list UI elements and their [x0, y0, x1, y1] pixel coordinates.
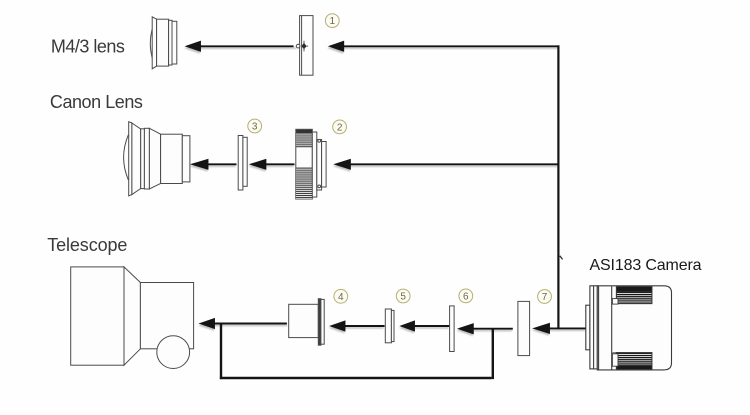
adapter 2 knurled ring	[296, 129, 326, 199]
Canon lens drawing	[124, 122, 190, 196]
arrow camera to adapter 7	[535, 324, 586, 333]
arrow to M4/3 lens	[188, 42, 294, 51]
svg-text:1: 1	[330, 16, 336, 27]
svg-text:5: 5	[400, 292, 406, 303]
M4/3 lens drawing	[150, 17, 177, 69]
wire feedback bottom segment	[220, 377, 492, 379]
wire feedback down segment	[492, 329, 494, 379]
arrow shadows	[187, 44, 586, 335]
adapter 3 plates	[238, 136, 247, 191]
arrow to Canon lens	[193, 160, 236, 169]
circled number 6	[459, 289, 473, 303]
svg-text:6: 6	[463, 292, 469, 303]
arrow to adapter 2	[336, 160, 559, 169]
svg-text:7: 7	[542, 292, 548, 303]
arrow to adapter 1	[331, 42, 560, 51]
wire feedback up segment	[220, 324, 222, 380]
small tick mark near camera	[560, 256, 563, 260]
adapter 4 nosepiece	[289, 299, 324, 346]
circled number 4	[334, 289, 348, 303]
ASI183 camera drawing	[586, 286, 672, 370]
circled number 7	[538, 290, 552, 304]
arrow adapter 2 to adapter 3	[252, 160, 295, 169]
arrow adapter 6 to adapter 5	[402, 322, 449, 331]
arrow adapter 5 to adapter 4	[332, 322, 385, 331]
svg-text:2: 2	[337, 123, 343, 134]
adapter 5 plates	[385, 309, 394, 343]
svg-text:3: 3	[252, 122, 258, 133]
circled number 5	[396, 289, 410, 303]
svg-text:Telescope: Telescope	[47, 235, 127, 255]
adapter 7 plate	[518, 301, 530, 355]
telescope drawing	[71, 267, 194, 369]
circled number 1	[325, 14, 339, 28]
adapter 1 plate	[296, 16, 313, 76]
svg-text:4: 4	[338, 292, 344, 303]
wire vertical main from camera row up to row 1	[557, 45, 559, 329]
arrow to telescope	[201, 319, 287, 328]
svg-text:ASI183 Camera: ASI183 Camera	[590, 257, 702, 274]
circled number 3	[248, 119, 262, 133]
svg-text:Canon Lens: Canon Lens	[50, 92, 143, 112]
adapter 6 plate	[450, 306, 455, 352]
svg-text:M4/3 lens: M4/3 lens	[51, 36, 125, 56]
arrow junction to adapter 6	[460, 324, 513, 333]
circled number 2	[333, 120, 347, 134]
